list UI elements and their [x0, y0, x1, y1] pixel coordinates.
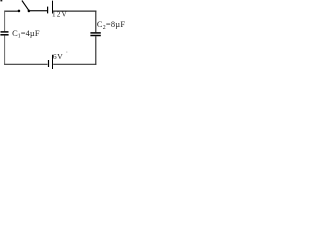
wire right vertical upper — [95, 11, 97, 33]
wire right vertical lower — [95, 36, 97, 65]
battery B1 short plate — [47, 7, 49, 14]
wire switch to battery B1 — [30, 10, 48, 12]
svg-text:12V: 12V — [52, 11, 68, 19]
capacitor C2 bottom plate — [90, 35, 100, 37]
capacitor C2 top plate — [90, 32, 100, 34]
wire battery B1 to top-right corner — [53, 10, 96, 12]
stray cropped glyph top-left — [0, 0, 2, 1]
capacitor C1 bottom plate — [0, 34, 8, 36]
wire bottom right — [53, 63, 96, 65]
battery B1 long plate — [52, 1, 54, 14]
switch S right contact dot — [28, 10, 31, 13]
capacitor C1 top plate — [1, 31, 9, 33]
battery B2 short plate — [48, 60, 50, 67]
faint scan speck — [66, 51, 67, 53]
switch S left contact dot — [18, 10, 21, 13]
wire top-left horizontal — [4, 10, 18, 12]
svg-text:6V: 6V — [53, 52, 64, 61]
wire left vertical upper — [4, 11, 6, 32]
battery B2 long plate — [52, 55, 54, 69]
wire bottom left — [4, 63, 47, 65]
switch S blade — [22, 1, 29, 11]
wire left vertical lower — [4, 35, 6, 64]
svg-text:C1=4µF: C1=4µF — [12, 29, 40, 40]
